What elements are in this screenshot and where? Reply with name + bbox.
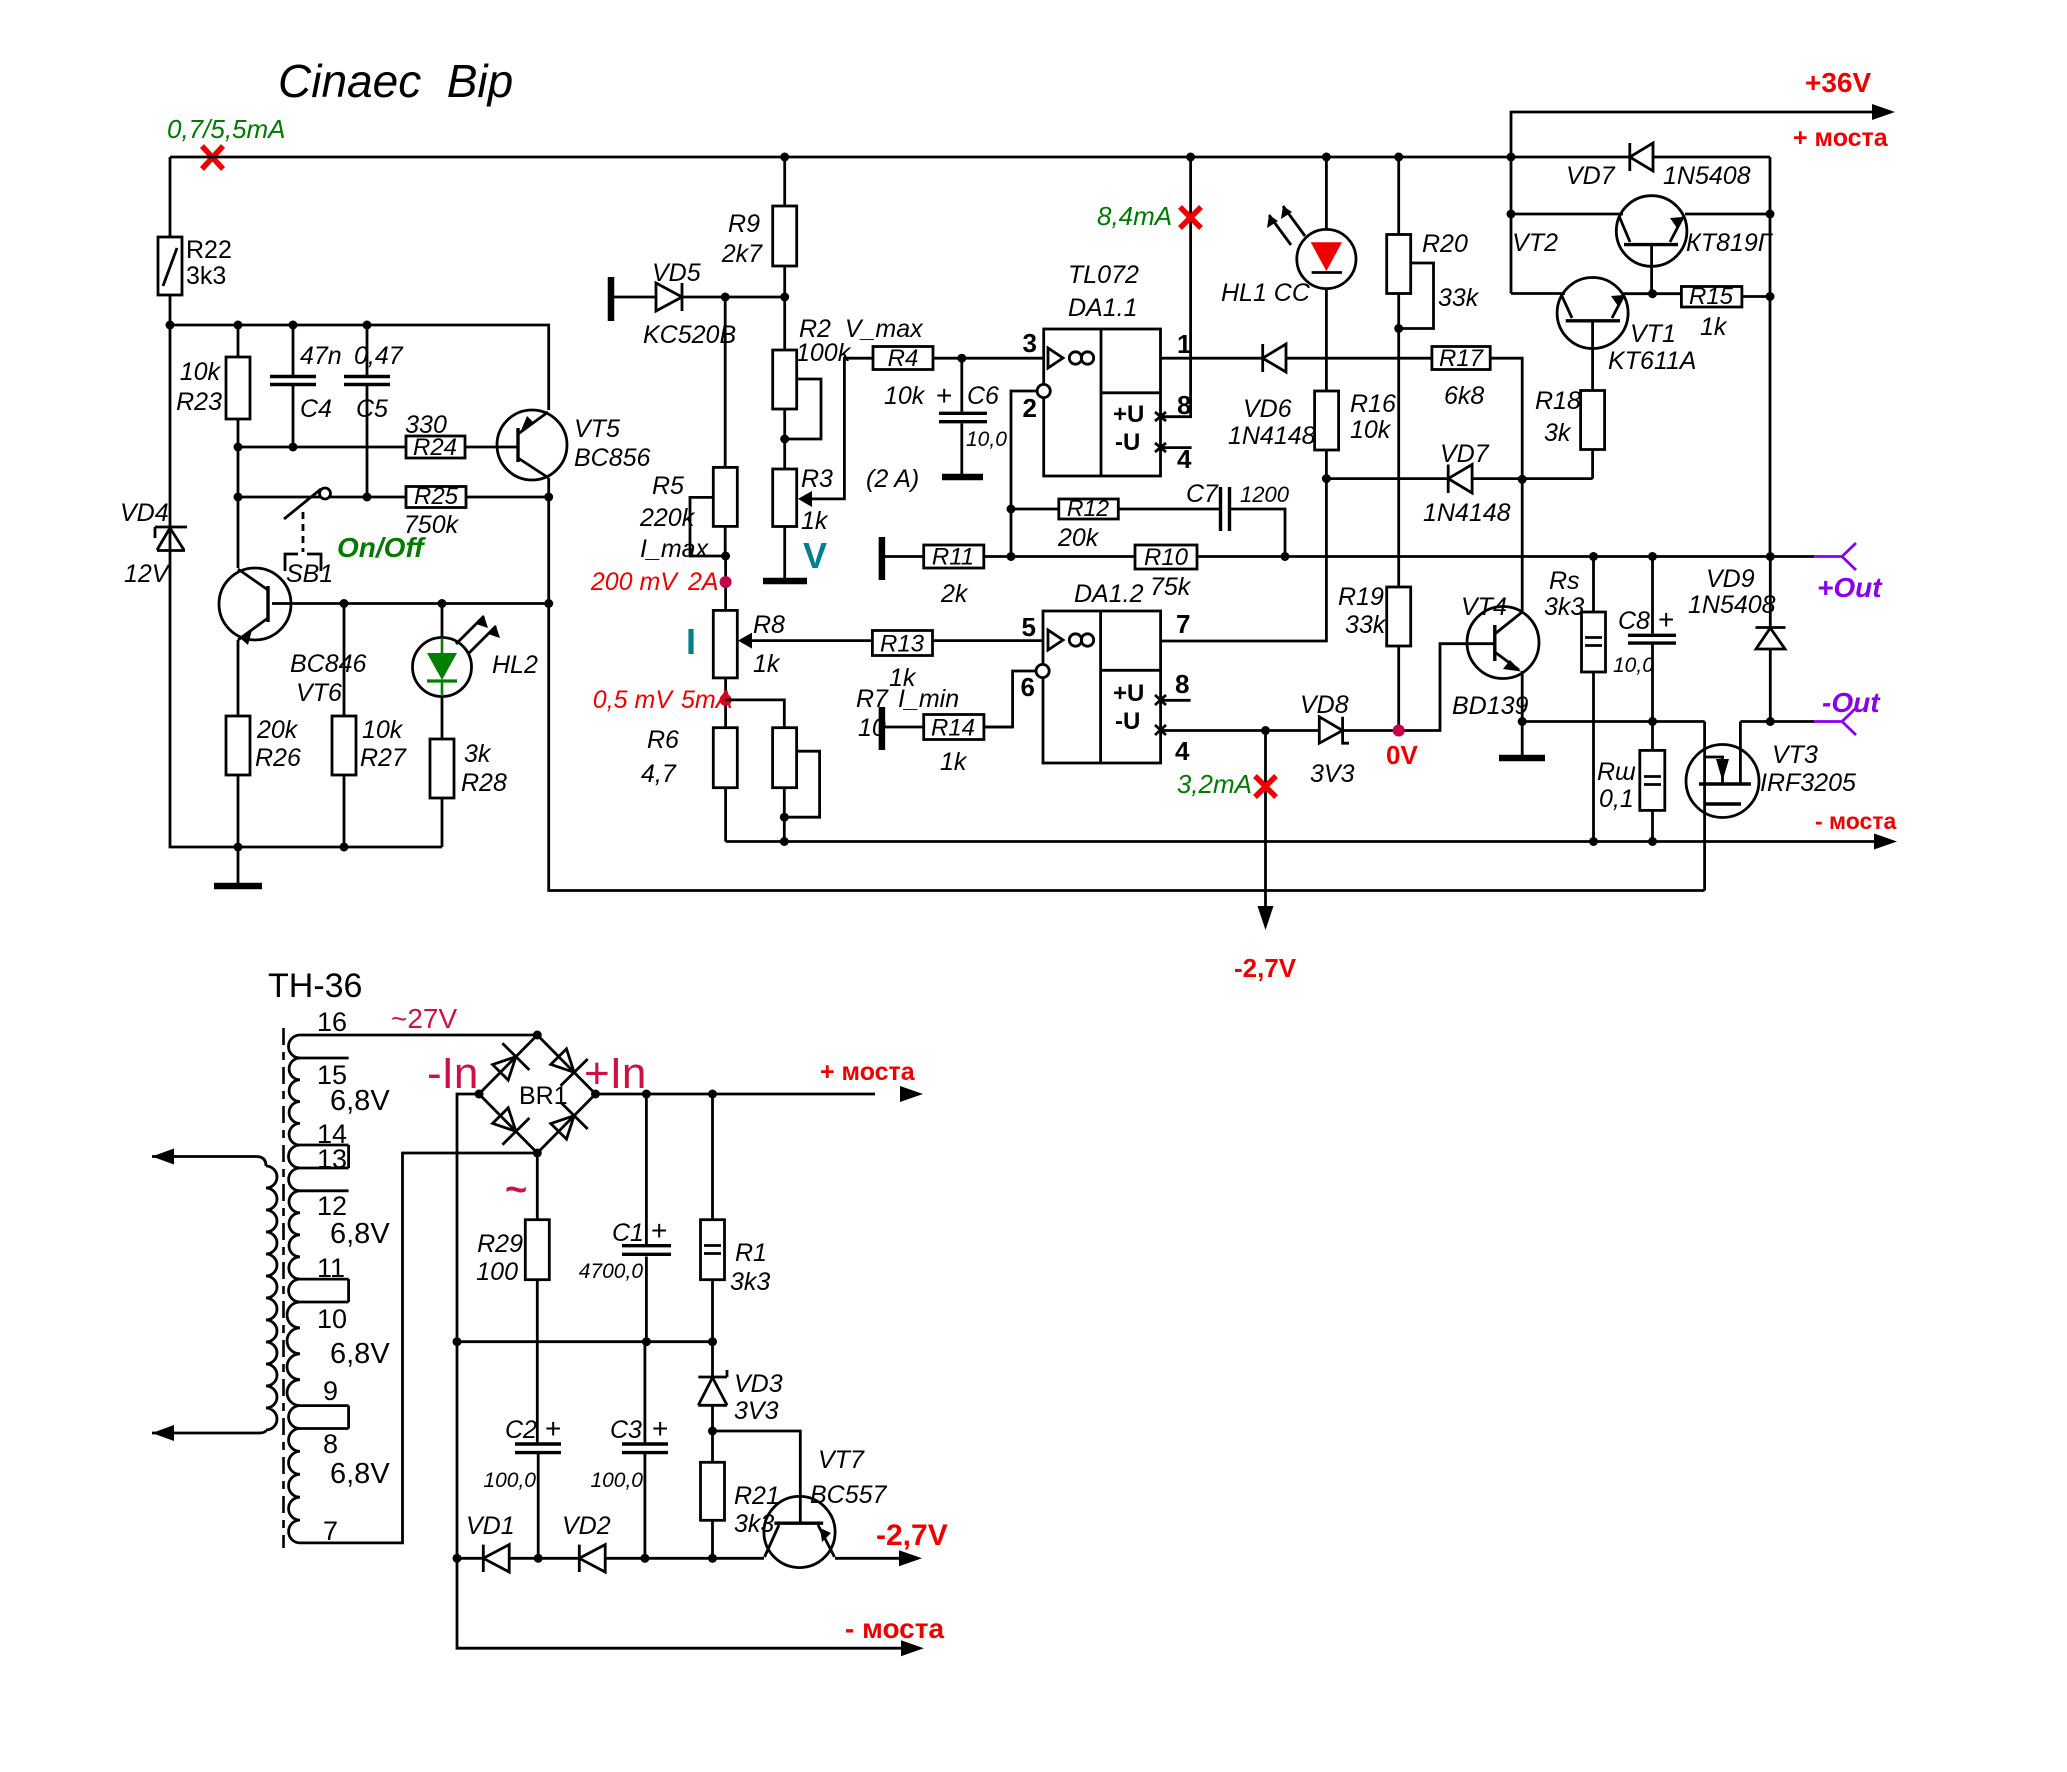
svg-text:+ моста: + моста [1793, 124, 1889, 152]
diode VD5 KC520B with terminal bar [611, 259, 785, 349]
terminal bar + resistor R11 [882, 537, 1135, 608]
node 0,5 mV 5mA [593, 678, 733, 728]
resistor Rш 0,1 (shunt) [1597, 722, 1665, 842]
wire DA1.1 pin2 feedback [1011, 391, 1037, 557]
wire right rail x=1770 [1769, 157, 1772, 557]
svg-text:I_max: I_max [640, 535, 710, 563]
svg-text:V: V [803, 535, 827, 576]
svg-text:7: 7 [323, 1516, 338, 1546]
svg-text:BR1: BR1 [519, 1082, 568, 1110]
svg-text:75k: 75k [1150, 573, 1192, 601]
capacitor C1 4700,0 (electrolytic) [579, 1094, 671, 1342]
svg-text:R11: R11 [932, 544, 974, 571]
potentiometer R5 I_max [639, 297, 737, 563]
resistor R9 [721, 157, 797, 297]
svg-text:+Out: +Out [1817, 572, 1883, 603]
resistor Rs [1544, 557, 1606, 842]
transistor VT2 KT819G [1511, 196, 1774, 294]
svg-text:VT3: VT3 [1772, 741, 1818, 769]
svg-text:330: 330 [405, 411, 447, 439]
resistor R19 [1338, 583, 1411, 731]
diode VD2 [562, 1512, 611, 1572]
svg-text:750k: 750k [404, 511, 460, 539]
svg-text:6,8V: 6,8V [330, 1218, 390, 1250]
transformer core (dashed) [282, 1028, 285, 1548]
node +Out [1814, 543, 1883, 603]
svg-text:R12: R12 [1067, 495, 1109, 521]
svg-text:R4: R4 [888, 345, 919, 372]
wire -Out line y=721.5 [1522, 720, 1814, 723]
svg-text:5mA: 5mA [681, 686, 732, 714]
node - моста arrow (bottom) [901, 1640, 924, 1656]
transistor VT4 BD139 [1452, 593, 1539, 722]
svg-text:+: + [936, 380, 952, 411]
svg-text:+: + [1658, 604, 1674, 635]
svg-text:-U: -U [1115, 429, 1140, 456]
svg-text:1N5408: 1N5408 [1663, 162, 1751, 190]
resistor R13 [872, 631, 1043, 693]
svg-text:1200: 1200 [1240, 482, 1290, 507]
svg-text:Cinaec Bip: Cinaec Bip [278, 55, 513, 107]
svg-text:VD4: VD4 [120, 499, 169, 527]
wire DA1.2 pin6 [984, 671, 1036, 727]
svg-text:-In: -In [427, 1049, 478, 1098]
svg-text:2k: 2k [940, 580, 969, 608]
svg-text:100,0: 100,0 [483, 1469, 536, 1492]
svg-text:DA1.2: DA1.2 [1074, 580, 1144, 608]
wire +36V branch [1511, 112, 1878, 157]
svg-text:+36V: +36V [1805, 67, 1871, 98]
svg-text:~27V: ~27V [391, 1003, 457, 1034]
svg-text:R19: R19 [1338, 583, 1384, 611]
svg-text:10,0: 10,0 [966, 428, 1007, 451]
svg-text:R6: R6 [647, 726, 679, 754]
svg-text:10k: 10k [884, 382, 926, 410]
svg-text:10k: 10k [1350, 416, 1392, 444]
capacitor C5 [344, 325, 404, 497]
svg-text:10k: 10k [180, 358, 222, 386]
svg-text:-U: -U [1115, 708, 1140, 735]
junction (170,325) [166, 321, 175, 330]
svg-text:R28: R28 [461, 769, 507, 797]
svg-text:BC557: BC557 [810, 1481, 888, 1509]
svg-text:VD2: VD2 [562, 1512, 611, 1540]
resistor R28 [430, 696, 507, 847]
svg-text:R9: R9 [728, 210, 760, 238]
svg-text:0,5 mV: 0,5 mV [593, 686, 675, 714]
svg-text:2A: 2A [687, 568, 719, 596]
node 200 mV 2A [590, 556, 732, 610]
svg-text:47n: 47n [300, 342, 342, 370]
resistor R16 [1315, 390, 1396, 479]
svg-text:R14: R14 [931, 715, 975, 742]
svg-text:C4: C4 [300, 395, 332, 423]
svg-text:VD7: VD7 [1440, 440, 1490, 468]
svg-text:BC856: BC856 [574, 444, 651, 472]
potentiometer R20 [1387, 157, 1480, 587]
svg-text:(2 A): (2 A) [866, 465, 919, 493]
svg-text:8: 8 [323, 1429, 338, 1459]
transformer secondary winding with taps [287, 1035, 537, 1543]
wire R25 line y=497 [330, 496, 549, 499]
svg-text:DA1.1: DA1.1 [1068, 294, 1137, 322]
wire + моста line [596, 1093, 876, 1096]
svg-text:KT611A: KT611A [1608, 347, 1696, 375]
wire DA1.2 pin7 to R16 bottom node [1161, 479, 1327, 641]
resistor R12 [1011, 495, 1220, 552]
svg-text:BD139: BD139 [1452, 692, 1529, 720]
resistor R1 3k3 [701, 1094, 771, 1342]
transformer primary winding [152, 1149, 277, 1442]
svg-text:R5: R5 [652, 472, 684, 500]
wire mid bus y=1341.7 [457, 1340, 713, 1343]
capacitor C8 (electrolytic) [1613, 557, 1676, 722]
resistor R29 [476, 1153, 549, 1444]
svg-text:VT6: VT6 [296, 679, 342, 707]
svg-text:5: 5 [1022, 612, 1036, 642]
svg-text:1N5408: 1N5408 [1688, 591, 1776, 619]
svg-text:VD1: VD1 [466, 1512, 515, 1540]
zener VD4 [120, 499, 187, 588]
svg-text:1k: 1k [889, 664, 917, 692]
capacitor C3 100,0 (electrolytic) [590, 1342, 668, 1559]
svg-text:BC846: BC846 [290, 650, 367, 678]
terminal bar + resistor R14 [882, 707, 1013, 776]
svg-text:VD6: VD6 [1243, 395, 1292, 423]
marker 3,2mA X and -2,7V drop [1177, 731, 1297, 984]
ground under R3 [763, 527, 807, 582]
svg-text:R3: R3 [801, 465, 833, 493]
svg-text:R20: R20 [1422, 230, 1468, 258]
svg-text:R21: R21 [734, 1482, 780, 1510]
wire x=1511 collector feed [1510, 157, 1513, 294]
svg-text:6,8V: 6,8V [330, 1458, 390, 1490]
capacitor C4 [270, 325, 342, 447]
svg-text:Rш: Rш [1597, 758, 1636, 786]
svg-text:R15: R15 [1689, 283, 1734, 310]
svg-text:3,2mA: 3,2mA [1177, 769, 1252, 799]
node +36V arrow [1872, 104, 1895, 120]
svg-text:9: 9 [323, 1376, 338, 1406]
wire left drop x=170 [170, 157, 442, 847]
wire -2,7V rail y=1558.3 [457, 1557, 900, 1560]
svg-text:R8: R8 [753, 611, 785, 639]
svg-text:2k7: 2k7 [721, 240, 763, 268]
svg-text:3k: 3k [1544, 419, 1572, 447]
op-amp DA1.1 (TL072) [1023, 261, 1192, 476]
svg-text:3: 3 [1023, 328, 1037, 358]
svg-text:VT7: VT7 [818, 1446, 865, 1474]
resistor R23 [176, 325, 250, 447]
svg-text:4700,0: 4700,0 [579, 1260, 644, 1283]
svg-text:6,8V: 6,8V [330, 1338, 390, 1370]
svg-text:R17: R17 [1439, 345, 1485, 372]
svg-text:-2,7V: -2,7V [876, 1519, 948, 1552]
svg-text:0,1: 0,1 [1599, 785, 1634, 813]
svg-text:+: + [652, 1413, 668, 1444]
svg-text:20k: 20k [256, 716, 299, 744]
svg-text:12: 12 [317, 1191, 347, 1221]
resistor R15 [1681, 283, 1770, 341]
resistor R6 [641, 726, 737, 842]
svg-text:33k: 33k [1345, 611, 1387, 639]
svg-text:220k: 220k [639, 504, 696, 532]
resistor R17 [1432, 345, 1522, 607]
capacitor C7 [1186, 480, 1290, 557]
op-amp DA1.2 (TL072) [1021, 580, 1191, 766]
svg-text:10,0: 10,0 [1613, 654, 1654, 677]
ground under VT4 [1499, 722, 1545, 759]
potentiometer R7 I_min [726, 685, 960, 842]
svg-text:VD7: VD7 [1566, 162, 1616, 190]
potentiometer R2 [773, 297, 924, 469]
svg-text:R22: R22 [186, 236, 232, 264]
svg-text:SB1: SB1 [286, 560, 333, 588]
diode VD7 1N5408 (top bus) [1566, 143, 1751, 190]
svg-text:3k3: 3k3 [730, 1268, 770, 1296]
transistor VT6 [219, 497, 549, 716]
svg-text:~: ~ [505, 1169, 527, 1211]
transformer pin numbers [317, 1007, 347, 1546]
resistor R10 [1135, 544, 1814, 601]
svg-text:7: 7 [1176, 609, 1190, 639]
svg-text:C1: C1 [612, 1219, 644, 1247]
transistor VT7 BC557 [713, 1431, 888, 1568]
svg-text:R23: R23 [176, 388, 222, 416]
svg-text:4: 4 [1175, 736, 1190, 766]
svg-text:4,7: 4,7 [641, 760, 677, 788]
svg-text:HL1 CC: HL1 CC [1221, 279, 1311, 307]
wire top bus y=157 [170, 156, 1770, 159]
wire rail y=325 [170, 325, 549, 410]
svg-text:+U: +U [1113, 680, 1144, 707]
node - моста arrow (top schematic) [1874, 834, 1897, 850]
svg-text:VT4: VT4 [1461, 593, 1507, 621]
MOSFET VT3 IRF3205 [1686, 722, 1856, 891]
wire DA1.1 pin4 stub [1161, 446, 1192, 449]
wire DA1.1 pin8 +U to top bus [1161, 157, 1191, 417]
svg-text:C7: C7 [1186, 480, 1219, 508]
svg-text:12V: 12V [124, 560, 171, 588]
diode VD9 1N5408 [1688, 557, 1786, 722]
svg-text:3k3: 3k3 [186, 262, 226, 290]
svg-text:3k3: 3k3 [1544, 593, 1584, 621]
svg-text:TH-36: TH-36 [268, 967, 362, 1005]
transistor VT1 KT611A [1511, 278, 1696, 376]
svg-text:6k8: 6k8 [1444, 382, 1484, 410]
svg-text:C5: C5 [356, 395, 388, 423]
svg-text:IRF3205: IRF3205 [1760, 769, 1856, 797]
svg-text:3V3: 3V3 [1310, 760, 1355, 788]
svg-text:- моста: - моста [1815, 808, 1897, 834]
wire -моста bus (top schematic) y=841.5 [726, 840, 1874, 843]
svg-text:8,4mA: 8,4mA [1097, 201, 1172, 231]
svg-text:VT5: VT5 [574, 415, 620, 443]
svg-text:1k: 1k [1700, 313, 1728, 341]
svg-text:VT2: VT2 [1512, 229, 1558, 257]
svg-text:1k: 1k [801, 507, 829, 535]
resistor R27 [332, 604, 407, 848]
svg-text:2: 2 [1023, 393, 1037, 423]
svg-text:C8: C8 [1618, 607, 1650, 635]
svg-text:11: 11 [317, 1253, 345, 1283]
svg-text:1N4148: 1N4148 [1423, 499, 1511, 527]
wire DA1.2 pin4 line y=730.5 [1161, 729, 1320, 732]
wire VT5 collector drop x=548.7 [549, 478, 1705, 891]
wire DA1.2 pin8 stub [1161, 699, 1191, 702]
svg-text:HL2: HL2 [492, 651, 538, 679]
svg-text:+ моста: + моста [820, 1058, 916, 1086]
svg-text:+: + [651, 1215, 667, 1246]
svg-text:VT1: VT1 [1630, 320, 1676, 348]
node -Out [1814, 687, 1881, 735]
svg-text:KC520B: KC520B [643, 321, 736, 349]
node 0V [1393, 725, 1405, 737]
svg-text:+In: +In [584, 1049, 646, 1098]
potentiometer R8 (I adjust) [713, 610, 872, 678]
svg-text:3V3: 3V3 [734, 1397, 779, 1425]
svg-text:R1: R1 [735, 1239, 767, 1267]
switch SB1 [234, 447, 334, 588]
svg-text:1k: 1k [940, 748, 968, 776]
LED HL2 [413, 604, 538, 697]
resistor R4 [873, 345, 1044, 410]
node + моста arrow (bottom) [900, 1086, 923, 1102]
resistor R25 [404, 483, 466, 539]
resistor R18 [1535, 321, 1605, 479]
wire base line y=447 [238, 446, 518, 449]
svg-text:10k: 10k [362, 716, 404, 744]
resistor R21 [701, 1431, 780, 1558]
svg-text:3k: 3k [464, 740, 492, 768]
svg-text:1k: 1k [753, 650, 781, 678]
LED HL1 CC [1221, 157, 1356, 391]
svg-text:-2,7V: -2,7V [1234, 953, 1297, 983]
svg-text:Rs: Rs [1549, 567, 1580, 595]
wire -In drop [457, 1094, 902, 1648]
svg-text:33k: 33k [1438, 284, 1480, 312]
svg-text:R25: R25 [414, 483, 459, 510]
svg-text:10: 10 [317, 1304, 347, 1334]
diode VD6 1N4148 [1161, 344, 1432, 450]
svg-text:VD9: VD9 [1706, 565, 1755, 593]
svg-text:R29: R29 [477, 1230, 523, 1258]
diode VD7 1N4148 [1326, 440, 1592, 527]
svg-text:R27: R27 [360, 744, 407, 772]
svg-text:R10: R10 [1144, 544, 1189, 571]
svg-text:100: 100 [476, 1258, 518, 1286]
resistor R24 [405, 411, 465, 461]
diode VD1 [466, 1512, 515, 1572]
svg-text:VD3: VD3 [734, 1370, 783, 1398]
svg-text:I: I [686, 621, 696, 662]
svg-text:R13: R13 [880, 631, 925, 658]
capacitor C6 (electrolytic) [936, 358, 1007, 477]
svg-text:C6: C6 [967, 382, 999, 410]
svg-text:-Out: -Out [1822, 687, 1881, 718]
svg-text:1N4148: 1N4148 [1228, 422, 1316, 450]
svg-text:16: 16 [317, 1007, 347, 1037]
svg-text:6,8V: 6,8V [330, 1085, 390, 1117]
svg-text:R18: R18 [1535, 387, 1581, 415]
svg-text:13: 13 [317, 1144, 347, 1174]
potentiometer R3 (V adjust) [773, 358, 873, 535]
svg-text:R16: R16 [1350, 390, 1396, 418]
bridge rectifier BR1 [479, 1035, 596, 1153]
svg-text:200 mV: 200 mV [590, 568, 679, 596]
svg-text:0,7/5,5mA: 0,7/5,5mA [167, 114, 286, 144]
svg-text:0V: 0V [1386, 740, 1418, 770]
marker X break top-left [202, 146, 223, 169]
svg-text:0,47: 0,47 [354, 342, 404, 370]
capacitor C2 100,0 (electrolytic) [483, 1413, 561, 1558]
svg-text:+: + [545, 1413, 561, 1444]
svg-text:C2: C2 [505, 1416, 537, 1444]
svg-text:VD8: VD8 [1300, 691, 1349, 719]
svg-text:КТ819Г: КТ819Г [1686, 229, 1774, 257]
svg-text:6: 6 [1021, 672, 1035, 702]
winding voltage labels 6,8V [330, 1085, 390, 1490]
transistor VT5 [497, 410, 651, 480]
svg-text:C3: C3 [610, 1416, 642, 1444]
resistor R22 [158, 236, 232, 295]
svg-text:8: 8 [1175, 669, 1189, 699]
svg-text:R26: R26 [255, 744, 301, 772]
svg-text:TL072: TL072 [1068, 261, 1139, 289]
svg-text:20k: 20k [1057, 524, 1100, 552]
resistor R26 [226, 716, 301, 847]
node -2,7V arrow [899, 1550, 922, 1566]
ground (main, under VT6 leg) [214, 847, 262, 886]
zener VD3 3V3 [698, 1342, 782, 1431]
zener VD8 3V3 [1300, 644, 1495, 788]
svg-text:100,0: 100,0 [590, 1469, 643, 1492]
svg-text:- моста: - моста [845, 1613, 944, 1644]
svg-text:+U: +U [1113, 401, 1144, 428]
svg-text:VD5: VD5 [652, 259, 701, 287]
